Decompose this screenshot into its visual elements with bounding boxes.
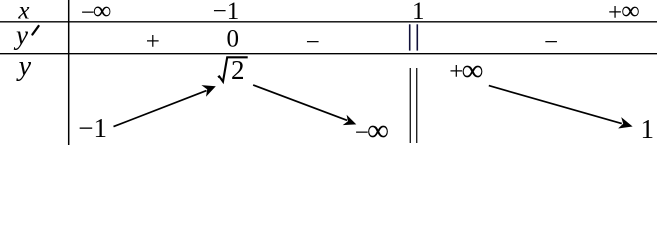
row 3 double bar (vertical asymptote at x=1), right stroke [416,68,418,143]
row 3 rising arrow from -1 up to sqrt(2): head [201,85,215,97]
svg-text:−1: −1 [213,0,240,25]
svg-text:+: + [608,0,622,26]
table grid: horizontal line between y' row and y row [0,53,657,55]
svg-text:−1: −1 [78,113,107,143]
table grid: vertical header separator line [68,0,70,145]
row 3 maximum value sqrt(2): radical sign [218,57,248,81]
row 2 double bar (derivative undefined at x=1), left stroke [409,24,411,50]
svg-text:y: y [16,51,32,82]
svg-text:y: y [13,20,28,50]
row 3 falling arrow from sqrt(2) down to -infinity: shaft [253,85,347,120]
svg-text:1: 1 [640,114,654,144]
row 2 header label prime stroke of y' [32,26,38,35]
svg-text:−: − [544,29,558,56]
svg-text:0: 0 [226,25,239,52]
svg-text:∞: ∞ [93,0,112,25]
svg-text:∞: ∞ [367,112,389,145]
table grid: horizontal line between x row and y' row [0,21,657,23]
row 3 rising arrow from -1 up to sqrt(2): shaft [114,91,207,127]
svg-text:+: + [146,28,160,55]
svg-text:∞: ∞ [621,0,640,25]
svg-text:∞: ∞ [462,52,484,87]
svg-text:1: 1 [412,0,425,25]
row 3 falling arrow from sqrt(2) down to -infinity: head [343,115,357,125]
row 2 double bar (derivative undefined at x=1), right stroke [416,24,418,50]
row 3 falling arrow from +infinity down to 1: head [618,117,633,128]
row 3 falling arrow from +infinity down to 1: shaft [489,86,622,124]
svg-text:−: − [306,29,320,56]
row 3 double bar (vertical asymptote at x=1), left stroke [409,68,411,143]
svg-text:2: 2 [231,55,245,85]
